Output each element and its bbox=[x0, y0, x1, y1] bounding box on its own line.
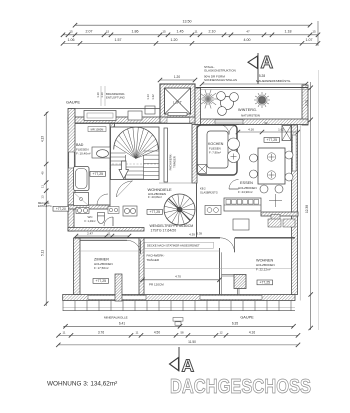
door at stair bottom bbox=[117, 181, 133, 198]
svg-text:ZIMMER: ZIMMER bbox=[94, 258, 109, 262]
svg-text:11: 11 bbox=[41, 185, 45, 188]
wall left wc block bbox=[68, 205, 74, 231]
svg-text:F: 1,40m²: F: 1,40m² bbox=[84, 219, 95, 223]
svg-text:+77,25: +77,25 bbox=[260, 281, 271, 285]
dim zimmer 2.47 bbox=[74, 232, 131, 239]
svg-text:47: 47 bbox=[246, 29, 250, 33]
svg-text:15: 15 bbox=[162, 29, 166, 33]
note decke nach statiker bbox=[145, 242, 214, 248]
svg-text:ENTLÜFTUNG: ENTLÜFTUNG bbox=[106, 96, 125, 100]
coffee table bbox=[233, 219, 249, 230]
level label dining bbox=[264, 138, 280, 143]
dim dining 4.16 bbox=[236, 128, 300, 135]
chimney living bbox=[222, 275, 247, 295]
svg-text:1.32: 1.32 bbox=[151, 94, 155, 100]
fachwerk beam bbox=[164, 128, 177, 182]
svg-text:11: 11 bbox=[194, 29, 197, 33]
svg-text:+77,25: +77,25 bbox=[93, 172, 104, 176]
label zimmer bbox=[94, 258, 113, 271]
shower bbox=[74, 193, 89, 206]
svg-text:WINTERG.: WINTERG. bbox=[238, 108, 257, 112]
svg-text:ENTLÜFTG: ENTLÜFTG bbox=[38, 204, 52, 208]
label kochen bbox=[208, 142, 224, 155]
fachwerk traeger label corridor bbox=[147, 254, 165, 263]
svg-text:1.10: 1.10 bbox=[100, 92, 104, 98]
bathtub bbox=[74, 167, 90, 191]
svg-text:LIFT: LIFT bbox=[173, 100, 182, 105]
winter garden glass front bbox=[196, 88, 308, 125]
eaves line right bbox=[299, 125, 301, 301]
svg-text:WOHNEN: WOHNEN bbox=[256, 259, 274, 263]
washer dryer box bbox=[123, 206, 137, 216]
svg-text:1.57: 1.57 bbox=[115, 38, 122, 42]
svg-text:ESSEN: ESSEN bbox=[240, 181, 253, 185]
svg-text:+77,25: +77,25 bbox=[96, 279, 107, 283]
svg-text:SONNENSCHUTZGLAS: SONNENSCHUTZGLAS bbox=[204, 78, 237, 82]
dimension line bottom row1 bbox=[63, 321, 295, 328]
svg-text:2.10: 2.10 bbox=[209, 29, 216, 33]
label bp1220 window bbox=[88, 127, 106, 132]
note glasbruestung bbox=[200, 187, 218, 195]
svg-text:6.35: 6.35 bbox=[232, 321, 238, 325]
svg-text:4.16: 4.16 bbox=[248, 128, 254, 132]
pier between lift and winter garden bbox=[195, 88, 201, 125]
svg-text:1.06: 1.06 bbox=[68, 38, 75, 42]
svg-text:BAD: BAD bbox=[76, 143, 84, 147]
svg-text:6.41: 6.41 bbox=[119, 321, 125, 325]
svg-text:MAUERWERKSBRÜSTG.: MAUERWERKSBRÜSTG. bbox=[256, 79, 291, 83]
svg-text:15: 15 bbox=[312, 29, 316, 33]
svg-text:17STG 17,64/20: 17STG 17,64/20 bbox=[151, 228, 177, 232]
svg-text:TRÄGER: TRÄGER bbox=[173, 156, 177, 168]
door kitchen bbox=[229, 180, 239, 190]
dimension line top row2 bbox=[61, 29, 320, 37]
shaft dining top right bbox=[282, 126, 291, 141]
wall band under lift bbox=[160, 117, 196, 123]
svg-text:GLASKONSTRUKTION: GLASKONSTRUKTION bbox=[204, 69, 236, 73]
svg-text:F: 7,90m²: F: 7,90m² bbox=[209, 151, 221, 155]
kitchen island bbox=[207, 131, 228, 168]
svg-text:13.50: 13.50 bbox=[183, 20, 192, 24]
svg-text:1.07: 1.07 bbox=[306, 38, 313, 42]
svg-text:GAUPE: GAUPE bbox=[66, 100, 80, 105]
top right tick column bbox=[317, 21, 319, 46]
kitchen shaft bbox=[198, 165, 207, 174]
dimension line bottom row2 bbox=[56, 331, 300, 338]
dim 4.39 above living door bbox=[189, 233, 195, 237]
svg-text:40: 40 bbox=[41, 171, 45, 175]
wall right outer bbox=[292, 125, 298, 295]
svg-text:1.86: 1.86 bbox=[132, 29, 139, 33]
svg-text:4.13: 4.13 bbox=[41, 136, 45, 142]
plant left winter garden bbox=[198, 90, 218, 109]
svg-text:2.70: 2.70 bbox=[305, 100, 309, 106]
dimension 1.20 above lift bbox=[158, 75, 197, 82]
svg-text:02: 02 bbox=[264, 121, 268, 125]
wall right winter garden bbox=[302, 85, 308, 125]
wall dining-living divider bbox=[261, 212, 298, 216]
note mineralwolle bottom bbox=[104, 315, 128, 319]
svg-text:F: 17,50m²: F: 17,50m² bbox=[94, 266, 109, 270]
svg-text:3.76: 3.76 bbox=[98, 331, 104, 335]
door bath bbox=[97, 194, 108, 205]
svg-text:F: 22,12m²: F: 22,12m² bbox=[256, 268, 271, 272]
sideboard hall bbox=[205, 206, 221, 215]
svg-text:2.07: 2.07 bbox=[86, 29, 93, 33]
svg-text:5.11: 5.11 bbox=[41, 250, 45, 256]
section marker A bottom bbox=[170, 347, 195, 376]
svg-text:PR 120CM: PR 120CM bbox=[149, 283, 164, 287]
svg-text:4.00: 4.00 bbox=[244, 38, 251, 42]
label essen bbox=[238, 181, 257, 194]
svg-text:11: 11 bbox=[136, 331, 139, 335]
dimension 5.28 mauerwerksbruestung bbox=[200, 74, 308, 86]
crosshair living bbox=[269, 194, 282, 207]
label winterg bbox=[238, 108, 260, 118]
wall zimmer top inner bbox=[80, 239, 127, 241]
door hall-living bbox=[220, 238, 235, 253]
svg-text:15: 15 bbox=[69, 29, 73, 33]
kitchen sink circles bbox=[228, 138, 240, 163]
svg-text:DECKE NACH STATIKER ANGEORDNET: DECKE NACH STATIKER ANGEORDNET bbox=[147, 243, 200, 247]
wall hall-kitchen divider bbox=[192, 125, 197, 184]
wall top gaupe band bbox=[68, 109, 160, 124]
symbol bottom center bbox=[173, 318, 183, 326]
svg-text:MINERALWOLLE: MINERALWOLLE bbox=[104, 315, 128, 319]
svg-text:4.16: 4.16 bbox=[249, 331, 255, 335]
corridor wall right bbox=[220, 248, 222, 295]
svg-text:MECHAN.: MECHAN. bbox=[38, 201, 50, 205]
dim 4.70 corridor bbox=[140, 275, 221, 283]
svg-text:+77,20: +77,20 bbox=[56, 207, 66, 211]
label gaupe top bbox=[66, 100, 80, 105]
wall wc bottom bbox=[68, 228, 144, 232]
svg-text:+77,25: +77,25 bbox=[150, 210, 161, 214]
svg-text:1.20: 1.20 bbox=[174, 75, 180, 79]
level label left bbox=[53, 206, 69, 211]
wall zimmer right bbox=[139, 238, 144, 295]
label wohnen bbox=[256, 259, 275, 272]
note brandwand-entlueftung bbox=[96, 86, 125, 106]
floor outlet dotted bbox=[271, 215, 280, 222]
french door winter garden bbox=[219, 125, 239, 135]
wall hall bottom bbox=[75, 237, 295, 239]
lift shaft bbox=[160, 84, 195, 118]
svg-text:2.47: 2.47 bbox=[87, 232, 93, 236]
svg-text:WOHNUNG 3: 134,62m²: WOHNUNG 3: 134,62m² bbox=[47, 381, 117, 388]
title dachgeschoss bbox=[170, 376, 311, 398]
wall band below winter garden bbox=[196, 119, 308, 125]
wall bath right bbox=[110, 123, 115, 205]
kitchen enclosure bbox=[197, 125, 237, 175]
svg-text:A: A bbox=[261, 52, 274, 72]
label bad bbox=[76, 143, 91, 156]
wc basins bbox=[76, 208, 89, 214]
wall bath-wc divider bbox=[68, 205, 110, 209]
ceiling line corridor-living bbox=[144, 267, 292, 269]
spiral staircase wendeltreppe bbox=[164, 194, 195, 225]
svg-text:11: 11 bbox=[108, 232, 111, 236]
round table winter garden bbox=[217, 92, 239, 116]
label wendeltreppe bbox=[150, 224, 203, 236]
hall top edge bbox=[75, 123, 192, 125]
svg-text:MR 1000M: MR 1000M bbox=[91, 128, 104, 132]
svg-text:WC: WC bbox=[88, 215, 94, 219]
double socket symbol hall bbox=[108, 207, 119, 214]
svg-text:FACHWERK-: FACHWERK- bbox=[147, 254, 165, 258]
note mechanische entlueftung bbox=[38, 201, 52, 208]
svg-text:12.38: 12.38 bbox=[305, 205, 309, 213]
svg-text:TRÄGER: TRÄGER bbox=[147, 258, 160, 262]
plant right winter garden dark bbox=[254, 92, 270, 108]
radiator boxes living bbox=[268, 219, 295, 227]
svg-text:1.45: 1.45 bbox=[177, 29, 184, 33]
wall left zimmer bbox=[74, 238, 81, 295]
svg-text:15: 15 bbox=[106, 29, 110, 33]
svg-text:58: 58 bbox=[180, 331, 184, 335]
svg-text:HOLZBODEN: HOLZBODEN bbox=[256, 263, 275, 267]
hall-dining rail bbox=[159, 183, 197, 238]
dining table bbox=[258, 148, 285, 184]
dimension line top row3 bbox=[61, 38, 320, 46]
staircase main bbox=[111, 127, 160, 180]
note stahl-glaskonstruktion bbox=[204, 65, 236, 73]
dining chairs bbox=[250, 151, 294, 193]
svg-text:1.20: 1.20 bbox=[171, 38, 178, 42]
dimension line left bbox=[41, 111, 49, 306]
wc bowl bbox=[97, 213, 104, 224]
svg-text:6.39: 6.39 bbox=[197, 232, 203, 236]
svg-text:1.18: 1.18 bbox=[285, 29, 292, 33]
small duct left of lift bbox=[145, 106, 155, 114]
level label wohnen bbox=[257, 280, 273, 285]
svg-text:12: 12 bbox=[219, 331, 223, 335]
svg-text:4.70: 4.70 bbox=[175, 275, 181, 279]
level label bath bbox=[90, 172, 106, 177]
duct right of zimmer bbox=[115, 274, 122, 301]
wall bottom outer bbox=[63, 295, 295, 301]
svg-text:KOCHEN: KOCHEN bbox=[208, 142, 224, 146]
level label zimmer bbox=[93, 279, 109, 284]
section marker A top bbox=[248, 52, 274, 84]
svg-text:F: 43,06m²: F: 43,06m² bbox=[148, 195, 162, 199]
note sonnenschutzglas bbox=[204, 75, 237, 83]
svg-text:NATURSTEIN: NATURSTEIN bbox=[241, 114, 260, 118]
label gaupe bottom bbox=[240, 316, 254, 320]
svg-text:GLASBRÜSTG: GLASBRÜSTG bbox=[200, 191, 218, 195]
svg-text:1.62: 1.62 bbox=[278, 128, 284, 132]
sofa bbox=[224, 198, 261, 211]
gaupe window row bottom bbox=[63, 301, 295, 311]
svg-text:+77,25: +77,25 bbox=[267, 138, 278, 142]
svg-text:4.50: 4.50 bbox=[154, 331, 160, 335]
svg-text:F: 10,40m²: F: 10,40m² bbox=[76, 152, 91, 156]
wall left outer bbox=[68, 109, 75, 206]
vanity sink bath bbox=[92, 147, 110, 158]
labels left of lift bbox=[146, 94, 155, 100]
outer boundary line right bbox=[317, 70, 319, 330]
svg-text:GAUPE: GAUPE bbox=[240, 316, 254, 320]
svg-text:5.28: 5.28 bbox=[259, 74, 265, 78]
svg-text:13: 13 bbox=[41, 195, 45, 199]
label wc bbox=[84, 215, 95, 223]
svg-text:KB 2: KB 2 bbox=[200, 187, 206, 191]
ceiling line zimmer-corridor bbox=[80, 250, 220, 252]
svg-text:11.50: 11.50 bbox=[188, 340, 196, 344]
svg-text:F: 24,90m²: F: 24,90m² bbox=[238, 190, 253, 194]
svg-text:DACHGESCHOSS: DACHGESCHOSS bbox=[170, 376, 311, 398]
dimension line bottom row3 bbox=[56, 340, 300, 347]
svg-text:A: A bbox=[182, 356, 195, 376]
svg-text:1.13: 1.13 bbox=[146, 94, 150, 100]
door wc bbox=[104, 217, 113, 226]
door zimmer bbox=[127, 240, 141, 254]
label wohndiele bbox=[148, 187, 173, 199]
dimension line right bbox=[305, 82, 313, 330]
svg-text:4.39: 4.39 bbox=[189, 233, 195, 237]
label pr 120cm bbox=[149, 283, 164, 287]
svg-text:11: 11 bbox=[63, 331, 66, 335]
label wohnung 3 bbox=[47, 381, 117, 388]
level label hall bbox=[147, 210, 163, 215]
dimension line top total 13.50 bbox=[73, 20, 312, 28]
